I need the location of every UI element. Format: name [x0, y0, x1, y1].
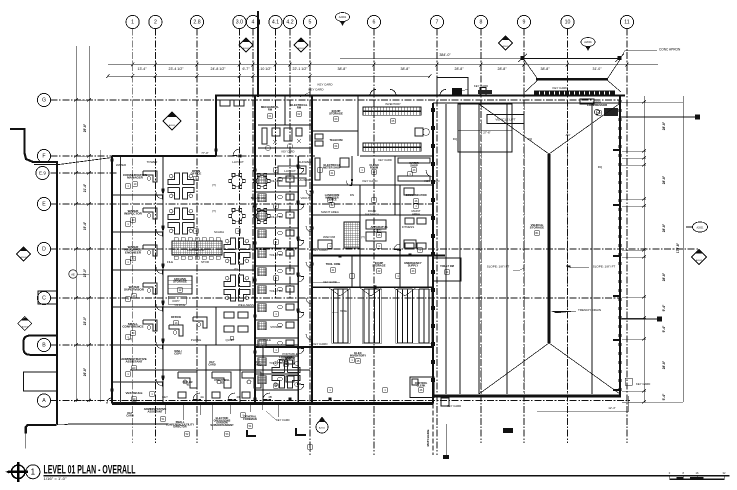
svg-text:E.9: E.9 [39, 171, 46, 176]
vehicle stripes group4 [418, 289, 420, 343]
svg-text:ASSISTANT: ASSISTANT [125, 360, 142, 364]
elevation balloon near grid 10 [581, 38, 595, 52]
nw room door [233, 149, 240, 155]
west room doors [156, 192, 162, 199]
svg-text:CARD: CARD [126, 413, 134, 417]
telecom racks [315, 134, 323, 146]
svg-text:1: 1 [131, 20, 134, 26]
svg-text:OFFICE: OFFICE [285, 355, 296, 359]
svg-text:384'-0": 384'-0" [439, 53, 451, 57]
bay inner north wall [433, 102, 620, 104]
left small circle marker [69, 270, 89, 278]
IT room [171, 315, 181, 319]
right zone partitions [312, 184, 433, 186]
svg-text:21'-4": 21'-4" [83, 183, 87, 192]
office north wall at F [112, 155, 216, 157]
grid bubble A [37, 394, 50, 407]
north wall door hardware [370, 88, 486, 96]
vehicle stripes group2 [363, 289, 365, 343]
svg-text:LEVEL 01 PLAN - OVERALL: LEVEL 01 PLAN - OVERALL [44, 462, 136, 476]
wellness room wall [215, 307, 217, 345]
svg-text:G: G [42, 98, 46, 104]
grid bubble 7 [430, 15, 443, 28]
office west wall [111, 156, 113, 404]
svg-text:7'-10 1/2": 7'-10 1/2" [257, 67, 273, 71]
west office desks [143, 171, 157, 182]
svg-text:CARD: CARD [208, 362, 216, 366]
svg-text:WELLNESS: WELLNESS [238, 303, 254, 307]
top dimension labels [138, 67, 603, 71]
west upper wall at grid 3 [215, 96, 217, 157]
wash compressor equipment [587, 101, 607, 108]
grid bubble F [37, 149, 50, 162]
accordion fold door bar [534, 91, 615, 96]
svg-text:WATER: WATER [116, 163, 126, 167]
column markers bay west wall [431, 108, 435, 382]
svg-text:2.8: 2.8 [193, 20, 200, 26]
office mid partitions [163, 344, 298, 346]
equip storage room [312, 130, 358, 132]
title underline [44, 475, 730, 477]
svg-text:A-0': A-0' [566, 133, 571, 137]
mechanical room [258, 124, 312, 126]
grid bubble 5 [303, 15, 316, 28]
svg-text:A2001: A2001 [319, 427, 326, 430]
inventory racks lower [363, 143, 421, 147]
svg-text:28'-8": 28'-8" [662, 175, 666, 184]
warehouse wall [360, 155, 433, 157]
inventory racks upper [363, 107, 421, 111]
corridor G row [258, 147, 312, 149]
svg-text:24'-8 1/2": 24'-8 1/2" [211, 67, 227, 71]
svg-text:(T): (T) [212, 183, 216, 187]
toilet rm SE [433, 258, 461, 281]
west porch A rect [24, 372, 58, 391]
svg-text:TELECOM: TELECOM [329, 138, 343, 142]
bottom office door arcs [193, 393, 200, 399]
svg-text:KEY CARD: KEY CARD [309, 88, 324, 92]
svg-text:31'-0": 31'-0" [593, 67, 603, 71]
bottom offices row [205, 345, 207, 404]
svg-text:38'-8": 38'-8" [338, 67, 348, 71]
svg-text:SUPPLY: SUPPLY [408, 263, 419, 267]
svg-text:TOWER: TOWER [147, 160, 158, 164]
north wall office/warehouse [215, 94, 625, 96]
svg-text:COMMUNICATION: COMMUNICATION [405, 194, 426, 197]
svg-text:KEY CARD: KEY CARD [276, 418, 290, 422]
svg-text:CONFERENCE: CONFERENCE [122, 325, 143, 329]
scatter annotation texts [116, 160, 440, 399]
svg-text:TOILET RM: TOILET RM [269, 253, 283, 257]
svg-text:DN: DN [350, 193, 354, 197]
svg-text:A2001: A2001 [584, 40, 592, 44]
svg-text:KEY CARD: KEY CARD [636, 382, 650, 386]
svg-text:FILE: FILE [167, 260, 173, 264]
bottom marker circle [316, 417, 328, 434]
west small stub near C [38, 291, 57, 304]
svg-text:A2002: A2002 [696, 259, 703, 262]
bottom small black markers [443, 455, 449, 459]
svg-text:INSPECTOR: INSPECTOR [124, 212, 143, 216]
right marker balloon [686, 222, 708, 232]
grid bubble 4 [246, 15, 259, 28]
warehouse desk [415, 128, 429, 136]
fold door arcs garage [328, 287, 352, 296]
svg-text:26'-8": 26'-8" [83, 367, 87, 376]
svg-text:KEY CARD: KEY CARD [318, 83, 333, 87]
grid bubble D [37, 242, 50, 255]
svg-text:2: 2 [154, 20, 157, 26]
svg-text:STOR: STOR [201, 260, 209, 264]
bay NW fenced room [458, 104, 512, 152]
door jamb blobs [110, 148, 411, 400]
slope line bottom V [479, 343, 549, 394]
corridor labels bottom [184, 380, 193, 386]
svg-text:4.2: 4.2 [286, 20, 293, 26]
svg-text:QUIET: QUIET [226, 338, 235, 342]
svg-text:A2001: A2001 [502, 45, 509, 48]
svg-text:DISPATCH: DISPATCH [365, 213, 379, 217]
site boundary step top-left [10, 129, 58, 162]
svg-text:KEY CARD: KEY CARD [282, 150, 295, 154]
open office label [191, 169, 202, 176]
grid row lines [51, 100, 699, 401]
svg-text:F: F [42, 154, 45, 160]
svg-text:A2001: A2001 [339, 15, 347, 19]
grid bubble 6 [367, 15, 380, 28]
svg-text:SUPERVISOR: SUPERVISOR [124, 288, 145, 292]
water shop door arcs [426, 170, 432, 177]
svg-text:KEY CARD: KEY CARD [553, 86, 568, 90]
north keycard walkway [437, 78, 468, 96]
svg-text:CONC APRON: CONC APRON [659, 48, 681, 52]
leader vertical stubs [165, 405, 278, 430]
water shop benches [315, 158, 430, 181]
svg-text:28'-8": 28'-8" [662, 272, 666, 281]
svg-text:STORAGE: STORAGE [329, 112, 343, 116]
svg-text:A2001: A2001 [697, 227, 705, 230]
svg-text:MATCHLINE: MATCHLINE [426, 429, 430, 446]
grid bubble 11 [620, 15, 633, 28]
west outer canopy line [56, 163, 58, 425]
toilet fixtures [258, 176, 266, 184]
section cut heavy line at grid 4 [257, 11, 259, 97]
svg-text:COPY: COPY [174, 351, 182, 355]
left dimension rotated labels [83, 123, 87, 376]
svg-text:LAYOUT: LAYOUT [232, 160, 244, 164]
right zone labels [323, 163, 341, 169]
office inner wall at 163 [162, 156, 164, 404]
svg-text:1/16" = 1'-0": 1/16" = 1'-0" [44, 477, 68, 481]
road dispatch desks [366, 218, 426, 249]
svg-text:SHOP: SHOP [410, 163, 418, 167]
office south wall [112, 402, 433, 405]
svg-text:DIRECTOR: DIRECTOR [173, 425, 186, 429]
svg-text:COMPRESSOR: COMPRESSOR [587, 103, 607, 107]
detail diamond near grid 8 [499, 36, 513, 50]
maint area table [344, 222, 360, 248]
right marker diamond [692, 250, 707, 265]
courtyard detail diamond [163, 112, 181, 130]
svg-text:SHOWER: SHOWER [298, 160, 311, 164]
svg-text:VAULT: VAULT [301, 196, 310, 200]
open office 2 clusters [224, 238, 250, 264]
svg-text:4A: 4A [200, 395, 204, 399]
svg-text:OFFICE: OFFICE [175, 303, 186, 307]
grid bubble 2 [149, 15, 162, 28]
svg-text:TOILET RM: TOILET RM [269, 361, 283, 365]
svg-text:29'-8": 29'-8" [83, 123, 87, 132]
svg-text:E: E [42, 202, 46, 208]
right match line squares [695, 115, 700, 120]
svg-text:METER SHOP: METER SHOP [323, 165, 341, 169]
grid bubble E [37, 197, 50, 210]
svg-text:STORAGE: STORAGE [530, 226, 544, 230]
foreman office pinwheel [272, 360, 300, 388]
svg-text:28'-8": 28'-8" [498, 67, 508, 71]
title sheet number circle [26, 465, 40, 479]
svg-text:27'-6": 27'-6" [483, 131, 490, 135]
svg-text:7: 7 [436, 20, 439, 26]
svg-text:A: A [42, 398, 46, 404]
vehicle lift box [487, 115, 524, 124]
svg-text:KEY: KEY [162, 395, 168, 399]
left third dim line [100, 150, 102, 402]
graphic scale bar [669, 471, 726, 480]
south walk line [57, 423, 168, 426]
svg-text:ASSISTANT: ASSISTANT [148, 409, 163, 413]
title crosshair symbol [8, 462, 28, 482]
bottom office desks/labels [178, 372, 197, 398]
svg-text:INVENTORY: INVENTORY [350, 354, 366, 358]
svg-text:MANAGER: MANAGER [127, 176, 144, 180]
svg-text:22'-1 1/2": 22'-1 1/2" [293, 67, 309, 71]
secondary top dimension line [108, 75, 430, 77]
left detail diamond at D [17, 247, 31, 261]
svg-text:9'-4": 9'-4" [662, 325, 666, 332]
svg-text:SUPERINTENDENT: SUPERINTENDENT [210, 423, 234, 427]
svg-text:FOREMAN: FOREMAN [243, 417, 257, 421]
svg-text:BREAK RM: BREAK RM [251, 196, 266, 200]
toilet stack partitions [255, 173, 298, 175]
grid bubble 10 [561, 15, 574, 28]
grid bubble C [37, 291, 50, 304]
office corridor wall east [254, 96, 256, 404]
bottom row labels [326, 262, 341, 266]
svg-text:8: 8 [480, 20, 483, 26]
extra door arcs corridor [298, 169, 304, 175]
A row porch arcs [107, 398, 112, 404]
right vertical dimension lines [643, 96, 645, 402]
grid bubble E.9 [36, 166, 49, 179]
west office labels [123, 173, 147, 180]
svg-text:23'-0": 23'-0" [83, 268, 87, 277]
svg-text:A2001: A2001 [169, 124, 176, 127]
layout desks [278, 166, 306, 174]
svg-text:(T): (T) [361, 235, 365, 239]
bay east door ticks [613, 149, 620, 151]
mech equipment [262, 128, 302, 151]
svg-text:ENGINEER: ENGINEER [125, 250, 142, 254]
svg-text:PHONE: PHONE [191, 338, 201, 342]
work room [163, 306, 255, 308]
svg-text:D: D [42, 247, 46, 253]
grid bubble 4.2 [283, 15, 296, 28]
left vertical dimension lines [75, 46, 77, 402]
svg-text:4.1: 4.1 [272, 20, 279, 26]
svg-text:LAYOUT: LAYOUT [284, 169, 296, 173]
svg-text:3.0: 3.0 [236, 20, 243, 26]
svg-text:TOILET RM: TOILET RM [269, 215, 283, 219]
svg-text:TOILET RM: TOILET RM [269, 289, 283, 293]
section marker diamond right [294, 38, 308, 52]
svg-text:TOILET RM: TOILET RM [269, 179, 283, 183]
svg-text:4: 4 [252, 20, 255, 26]
apron funnel diagonals lower [525, 81, 537, 93]
svg-text:STORAGE: STORAGE [173, 280, 187, 284]
svg-text:SLOPE: 1/8"/ FT: SLOPE: 1/8"/ FT [593, 265, 616, 269]
grid column lines [133, 29, 627, 456]
svg-text:SHOWER: SHOWER [270, 325, 282, 329]
svg-text:23'-0": 23'-0" [83, 316, 87, 325]
svg-text:A2001: A2001 [243, 47, 250, 50]
apron funnel diagonals upper [524, 60, 537, 79]
svg-text:9: 9 [523, 20, 526, 26]
svg-text:KEY CARD: KEY CARD [378, 158, 392, 162]
svg-text:KEY CARD: KEY CARD [363, 179, 378, 183]
scatter tags [126, 168, 423, 450]
svg-text:6: 6 [373, 20, 376, 26]
conference table [172, 241, 222, 255]
svg-text:STORAGE: STORAGE [372, 263, 385, 267]
apron overhead door bar [536, 78, 608, 81]
svg-text:5: 5 [309, 20, 312, 26]
svg-text:A2001: A2001 [298, 47, 305, 50]
svg-text:TOOL CRIB: TOOL CRIB [326, 262, 341, 266]
svg-text:77'-0": 77'-0" [201, 151, 208, 155]
key card labels office [208, 360, 216, 366]
bay interior column lines [445, 104, 447, 394]
grid bubble 9 [517, 15, 530, 28]
grid bubble B [37, 338, 50, 351]
svg-text:11: 11 [624, 20, 629, 26]
grid bubble 4.1 [269, 15, 282, 28]
open office pinwheel clusters [168, 173, 194, 199]
svg-text:28'-8": 28'-8" [662, 223, 666, 232]
svg-text:10: 10 [565, 20, 571, 26]
svg-text:HUDDLE: HUDDLE [259, 338, 271, 342]
sidewalk diagonal to building [59, 158, 112, 165]
svg-text:LARGE CONF: LARGE CONF [187, 248, 205, 252]
svg-text:28'-8": 28'-8" [455, 67, 465, 71]
grid bubble 2.8 [190, 15, 203, 28]
svg-text:MAINT AREA: MAINT AREA [321, 210, 339, 214]
slope line top V [479, 104, 549, 154]
vehicle storage label [530, 223, 544, 230]
svg-text:RQ: RQ [453, 137, 458, 141]
west office room partitions [112, 194, 163, 196]
bay grid dashes vertical emphasize [480, 104, 482, 394]
svg-text:TOILET RM: TOILET RM [440, 264, 454, 268]
svg-text:28'-8": 28'-8" [662, 360, 666, 369]
svg-text:SLOPE: 1/8"/ FT: SLOPE: 1/8"/ FT [487, 265, 510, 269]
bay south wall [433, 395, 621, 398]
svg-text:C: C [42, 296, 46, 302]
svg-text:FITNESS: FITNESS [402, 225, 414, 229]
svg-text:(T): (T) [234, 267, 238, 271]
grid bubble 1 [126, 15, 139, 28]
svg-text:OFFICE: OFFICE [191, 172, 202, 176]
break tables [229, 174, 246, 189]
svg-text:KEY CARD: KEY CARD [313, 342, 328, 346]
black L brackets [247, 430, 256, 436]
svg-text:B: B [42, 343, 46, 349]
svg-text:AE: AE [71, 273, 75, 277]
mail area [174, 349, 182, 355]
trench drain line [548, 154, 551, 343]
bay east wall [619, 96, 621, 397]
svg-text:A2003: A2003 [22, 325, 29, 328]
svg-text:23'-4 1/2": 23'-4 1/2" [169, 67, 185, 71]
west closet line [120, 157, 122, 403]
svg-text:5'-4": 5'-4" [662, 393, 666, 400]
archive storage room [163, 269, 255, 271]
svg-text:KEY CARD: KEY CARD [313, 248, 328, 252]
svg-text:(T): (T) [212, 209, 216, 213]
svg-text:HOSE: HOSE [340, 310, 347, 313]
svg-text:OFFICE: OFFICE [171, 315, 181, 319]
svg-text:A2002: A2002 [20, 256, 27, 259]
svg-text:28'-8": 28'-8" [662, 121, 666, 130]
svg-text:6'-7": 6'-7" [242, 67, 250, 71]
right dimension rotated labels [662, 121, 666, 400]
svg-text:TRENCH DRAIN: TRENCH DRAIN [578, 308, 601, 312]
svg-text:WAR RM: WAR RM [323, 235, 336, 239]
elec inventory label [350, 351, 366, 358]
svg-text:170'-8": 170'-8" [676, 242, 680, 253]
svg-text:9'-4": 9'-4" [662, 304, 666, 311]
svg-text:38'-8": 38'-8" [401, 67, 411, 71]
svg-text:4B: 4B [268, 395, 272, 399]
southwest thick walk [26, 425, 57, 433]
svg-text:40: 40 [236, 395, 240, 399]
conc apron top edge [524, 58, 620, 60]
svg-text:ROOM: ROOM [370, 165, 379, 169]
svg-text:38'-8": 38'-8" [541, 67, 551, 71]
grid bubble G [37, 93, 50, 106]
elevation balloon top [336, 13, 350, 27]
vehicle stripes group1 [333, 289, 335, 343]
control clerk room [410, 377, 434, 398]
right zone equipment marks [404, 188, 414, 195]
tool crib room walls [351, 256, 353, 288]
overall dimension 384'-0" [340, 57, 550, 59]
section marker diamond left [239, 38, 253, 52]
svg-text:VESTIBULE: VESTIBULE [125, 391, 142, 395]
left detail diamond below C [18, 317, 32, 331]
grid bubble 8 [474, 15, 487, 28]
bottom leader labels [144, 407, 167, 413]
grid5 extension [309, 443, 311, 452]
svg-text:INVENTORY: INVENTORY [385, 102, 401, 106]
svg-text:19'-4": 19'-4" [83, 221, 87, 230]
svg-text:AREA: AREA [412, 212, 420, 216]
vehicle stripes group3 [397, 289, 399, 343]
bay west wall at grid 7 [432, 103, 434, 396]
top dimension string line [108, 64, 658, 66]
svg-text:LAUNDRY: LAUNDRY [298, 178, 312, 182]
svg-text:SCADA: SCADA [214, 230, 224, 234]
